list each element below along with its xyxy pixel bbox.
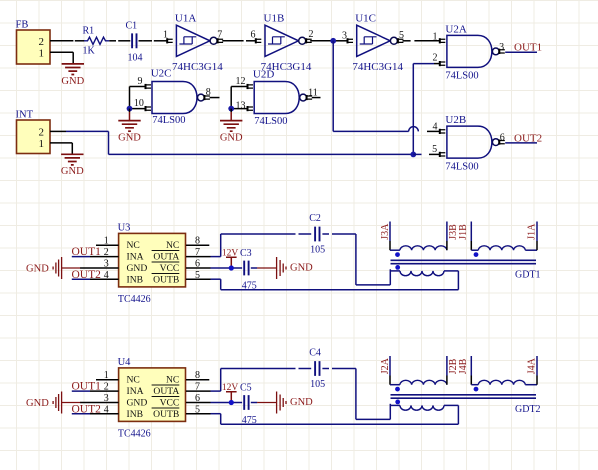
svg-text:OUT2: OUT2 bbox=[72, 403, 102, 415]
svg-text:OUT1: OUT1 bbox=[514, 42, 542, 54]
svg-text:GND: GND bbox=[290, 397, 313, 408]
svg-text:OUTA: OUTA bbox=[153, 251, 179, 262]
svg-text:GND: GND bbox=[127, 263, 148, 274]
svg-text:C1: C1 bbox=[126, 21, 138, 32]
svg-text:C3: C3 bbox=[240, 248, 252, 259]
svg-text:5: 5 bbox=[432, 144, 437, 155]
svg-text:TC4426: TC4426 bbox=[118, 294, 151, 305]
svg-text:NC: NC bbox=[166, 374, 179, 385]
svg-text:2: 2 bbox=[39, 36, 45, 48]
svg-text:U2D: U2D bbox=[253, 68, 274, 80]
svg-text:12V: 12V bbox=[222, 248, 239, 258]
svg-text:10: 10 bbox=[134, 98, 144, 109]
svg-text:U3: U3 bbox=[118, 222, 131, 233]
svg-text:OUT2: OUT2 bbox=[514, 132, 542, 144]
svg-text:8: 8 bbox=[206, 87, 211, 98]
svg-text:7: 7 bbox=[217, 30, 222, 41]
svg-text:OUTA: OUTA bbox=[153, 386, 179, 397]
svg-text:3: 3 bbox=[499, 42, 504, 53]
svg-text:GDT2: GDT2 bbox=[515, 404, 541, 415]
svg-text:9: 9 bbox=[138, 76, 143, 87]
svg-text:J4A: J4A bbox=[526, 357, 537, 374]
svg-text:INB: INB bbox=[127, 274, 144, 285]
svg-text:74HC3G14: 74HC3G14 bbox=[172, 61, 223, 73]
svg-text:INT: INT bbox=[16, 110, 34, 121]
svg-text:INB: INB bbox=[127, 409, 144, 420]
svg-text:J3A: J3A bbox=[380, 223, 391, 240]
svg-text:C4: C4 bbox=[309, 348, 321, 359]
svg-text:OUTB: OUTB bbox=[153, 274, 179, 285]
svg-text:74HC3G14: 74HC3G14 bbox=[352, 61, 403, 73]
svg-text:GND: GND bbox=[220, 133, 243, 144]
svg-text:1: 1 bbox=[433, 31, 438, 42]
svg-text:11: 11 bbox=[308, 87, 318, 98]
svg-text:U1C: U1C bbox=[355, 12, 376, 24]
svg-text:J1A: J1A bbox=[526, 223, 537, 240]
svg-text:U4: U4 bbox=[118, 357, 132, 368]
svg-text:6: 6 bbox=[251, 30, 256, 41]
svg-text:TC4426: TC4426 bbox=[118, 429, 151, 440]
svg-text:GDT1: GDT1 bbox=[515, 270, 541, 281]
svg-text:74LS00: 74LS00 bbox=[445, 71, 478, 82]
svg-text:C5: C5 bbox=[240, 383, 252, 394]
svg-text:2: 2 bbox=[433, 53, 438, 64]
svg-text:J2B: J2B bbox=[448, 358, 459, 374]
svg-text:VCC: VCC bbox=[160, 263, 180, 274]
svg-text:1: 1 bbox=[163, 30, 168, 41]
svg-text:J1B: J1B bbox=[458, 224, 469, 240]
svg-text:2: 2 bbox=[309, 29, 314, 40]
svg-text:NC: NC bbox=[166, 240, 179, 251]
svg-text:OUT1: OUT1 bbox=[72, 381, 102, 393]
svg-text:GND: GND bbox=[61, 166, 84, 177]
svg-text:5: 5 bbox=[399, 30, 404, 41]
svg-text:1K: 1K bbox=[83, 46, 96, 57]
svg-text:VCC: VCC bbox=[160, 397, 180, 408]
svg-text:2: 2 bbox=[39, 126, 45, 138]
svg-text:INA: INA bbox=[127, 251, 144, 262]
svg-text:13: 13 bbox=[236, 100, 246, 111]
svg-text:FB: FB bbox=[16, 20, 29, 31]
svg-text:1: 1 bbox=[39, 138, 45, 150]
svg-text:U1B: U1B bbox=[264, 12, 285, 24]
svg-text:J3B: J3B bbox=[448, 224, 459, 240]
svg-text:J2A: J2A bbox=[380, 357, 391, 374]
svg-text:OUT2: OUT2 bbox=[72, 269, 102, 281]
svg-text:GND: GND bbox=[290, 263, 313, 274]
svg-text:6: 6 bbox=[500, 132, 505, 143]
svg-text:4: 4 bbox=[433, 122, 438, 133]
svg-text:105: 105 bbox=[310, 379, 325, 390]
svg-text:GND: GND bbox=[118, 133, 141, 144]
svg-text:GND: GND bbox=[26, 398, 49, 409]
svg-text:J4B: J4B bbox=[458, 358, 469, 374]
svg-text:C2: C2 bbox=[309, 213, 321, 224]
svg-text:GND: GND bbox=[26, 263, 49, 274]
svg-text:U1A: U1A bbox=[175, 12, 196, 24]
svg-text:NC: NC bbox=[127, 374, 140, 385]
svg-text:U2B: U2B bbox=[445, 114, 466, 126]
svg-text:GND: GND bbox=[61, 76, 84, 87]
svg-text:R1: R1 bbox=[83, 26, 95, 37]
svg-text:OUT1: OUT1 bbox=[72, 246, 102, 258]
svg-text:GND: GND bbox=[127, 397, 148, 408]
svg-text:74LS00: 74LS00 bbox=[254, 116, 287, 127]
svg-text:OUTB: OUTB bbox=[153, 409, 179, 420]
svg-text:74LS00: 74LS00 bbox=[152, 115, 185, 126]
svg-text:3: 3 bbox=[342, 30, 347, 41]
svg-text:105: 105 bbox=[310, 245, 325, 256]
svg-text:12V: 12V bbox=[222, 383, 239, 393]
svg-text:U2A: U2A bbox=[445, 24, 466, 36]
svg-text:12: 12 bbox=[236, 76, 246, 87]
svg-text:104: 104 bbox=[128, 53, 143, 64]
svg-text:NC: NC bbox=[127, 240, 140, 251]
svg-text:U2C: U2C bbox=[151, 68, 172, 80]
svg-text:1: 1 bbox=[39, 48, 45, 60]
svg-text:74LS00: 74LS00 bbox=[445, 161, 478, 172]
svg-text:INA: INA bbox=[127, 386, 144, 397]
